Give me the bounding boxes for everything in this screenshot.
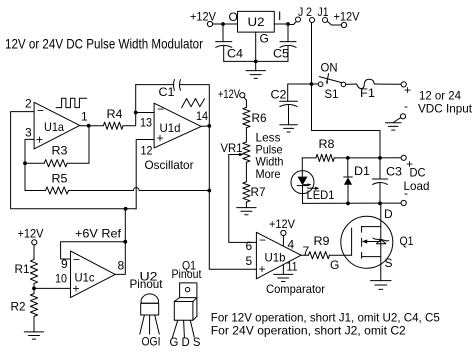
svg-text:R2: R2 <box>11 300 26 314</box>
wire node to J2 left contact <box>288 22 296 25</box>
svg-text:C2: C2 <box>271 88 287 102</box>
wire to U1c pin10 <box>34 287 71 289</box>
svg-text:12: 12 <box>141 144 153 158</box>
node R1/R2 junction <box>32 287 36 291</box>
node D1 top <box>346 156 350 160</box>
DC load + terminal <box>401 155 413 171</box>
svg-text:Q1: Q1 <box>400 234 414 248</box>
node ref rail <box>124 207 128 211</box>
svg-text:+12V: +12V <box>269 217 295 231</box>
node switch / C2 / bus <box>310 82 314 86</box>
potentiometer VR1 <box>221 141 257 242</box>
svg-text:VDC Input: VDC Input <box>418 102 473 116</box>
svg-text:+: + <box>36 133 43 147</box>
wire R5 to pin5 rail with jump over <box>68 190 133 192</box>
svg-text:More: More <box>256 167 281 181</box>
body diode <box>376 239 385 244</box>
wire U1b output <box>301 254 308 256</box>
ground (R7) <box>237 208 256 215</box>
+12V terminal (VR1 chain) <box>218 87 246 107</box>
wire pin13 <box>136 112 154 114</box>
svg-text:+: + <box>404 83 411 97</box>
svg-text:2: 2 <box>25 97 32 111</box>
svg-text:6: 6 <box>246 239 253 253</box>
drain stub <box>362 226 381 228</box>
svg-text:S: S <box>385 256 393 270</box>
node U1a output <box>87 124 91 128</box>
U2 pinout label <box>130 270 164 292</box>
svg-text:+6V Ref: +6V Ref <box>75 227 122 241</box>
svg-text:+: + <box>157 131 164 145</box>
svg-text:J 2: J 2 <box>298 5 312 19</box>
svg-text:J1: J1 <box>318 5 329 19</box>
+12V terminal (regulator output rail) <box>190 10 216 27</box>
svg-text:3: 3 <box>25 126 32 140</box>
+12V terminal (main rail source) <box>334 10 360 28</box>
svg-text:10: 10 <box>55 272 67 286</box>
svg-text:+: + <box>73 282 80 296</box>
node U1d output <box>207 124 211 128</box>
svg-text:Pinout: Pinout <box>130 277 164 291</box>
svg-text:+12V: +12V <box>190 10 216 24</box>
wire U1d pin12 down to ref rail <box>136 140 154 209</box>
wire - load rail <box>303 202 402 204</box>
Q1 pinout package (TO-220) <box>170 283 201 349</box>
svg-text:C4: C4 <box>227 47 243 61</box>
svg-text:O: O <box>229 10 238 24</box>
resistor R9 <box>309 234 352 272</box>
LED LED1 <box>291 158 335 204</box>
op-amp U1c <box>55 251 125 298</box>
svg-text:−: − <box>37 104 44 118</box>
wire node to U2 O pin <box>223 23 238 25</box>
svg-text:For 24V operation, short J2, o: For 24V operation, short J2, omit C2 <box>211 324 406 338</box>
svg-text:11: 11 <box>287 260 298 274</box>
resistor R2 <box>11 294 38 332</box>
switch S1 <box>313 61 345 102</box>
svg-text:R6: R6 <box>252 111 267 125</box>
resistor R8 <box>316 137 401 162</box>
Q1 pinout label <box>172 259 203 282</box>
wire +12V terminal to U2 output node <box>213 23 223 25</box>
ground (U2) <box>246 61 265 78</box>
ground (R2) <box>24 332 43 339</box>
triangle wave glyph <box>182 99 205 108</box>
svg-text:I: I <box>278 9 281 23</box>
svg-text:−: − <box>259 233 266 247</box>
channel bar dashed <box>361 226 363 232</box>
svg-text:4: 4 <box>288 238 295 252</box>
DC load - terminal <box>401 186 408 206</box>
svg-text:-: - <box>404 186 408 200</box>
svg-text:+: + <box>259 262 266 276</box>
resistor R6 <box>243 107 267 142</box>
svg-text:S1: S1 <box>325 87 339 101</box>
svg-text:G: G <box>260 32 269 46</box>
svg-text:1: 1 <box>81 110 88 124</box>
node ground rail <box>254 60 258 64</box>
svg-text:+12V: +12V <box>18 227 44 241</box>
drain-source lead <box>380 204 382 281</box>
ground (VDC input) <box>385 123 401 130</box>
svg-text:+12V: +12V <box>218 87 240 101</box>
op-amp U1a <box>25 97 88 149</box>
source stub <box>362 256 381 258</box>
wire U1a output <box>80 125 104 127</box>
svg-text:7: 7 <box>303 244 310 258</box>
svg-text:Comparator: Comparator <box>266 282 325 296</box>
wire U1a pin2 loop (left and down) <box>11 112 137 209</box>
+12V terminal (R1) <box>18 227 44 245</box>
wire U1a pin3 <box>25 139 34 190</box>
svg-text:R1: R1 <box>15 262 30 276</box>
VDC input + terminal <box>401 82 411 97</box>
svg-text:LED1: LED1 <box>307 188 335 202</box>
svg-text:ON: ON <box>321 61 338 75</box>
svg-text:13: 13 <box>140 116 152 130</box>
resistor R4 <box>103 85 135 130</box>
square wave glyph <box>56 98 87 107</box>
wire VR1 wiper down to U1b pin6 <box>229 155 257 243</box>
svg-text:C5: C5 <box>273 47 289 61</box>
capacitor C4 <box>216 26 244 61</box>
svg-text:F1: F1 <box>360 86 375 100</box>
LED arrows <box>304 184 309 186</box>
svg-text:Oscillator: Oscillator <box>145 158 194 172</box>
svg-text:R7: R7 <box>251 185 266 199</box>
node D1 bottom <box>346 202 350 206</box>
jumper J2 <box>296 5 315 23</box>
svg-text:12V or 24V DC Pulse Width Modu: 12V or 24V DC Pulse Width Modulator <box>5 36 203 52</box>
wire U1c feedback to pin9 <box>61 242 126 259</box>
svg-text:5: 5 <box>246 254 253 268</box>
wire node to C2 <box>288 84 312 101</box>
wire main bus from J2 down to switch node <box>311 23 313 85</box>
svg-text:R8: R8 <box>319 137 335 151</box>
capacitor C1 <box>136 80 210 126</box>
svg-text:D: D <box>384 207 393 221</box>
wire U1c output to +6V rail <box>115 209 125 275</box>
resistor R3 <box>25 126 89 167</box>
gate bar <box>351 228 353 255</box>
diode D1 <box>344 158 371 204</box>
ground (C2) <box>280 125 298 132</box>
op-amp U1d <box>140 102 208 172</box>
wire + load rail <box>302 157 316 159</box>
ground (U1b) <box>274 274 293 281</box>
jumper J1 <box>318 5 329 23</box>
U2 pinout package (TO-92) <box>140 294 161 349</box>
svg-text:12 or 24: 12 or 24 <box>419 89 461 103</box>
svg-text:R3: R3 <box>52 144 68 158</box>
svg-text:+12V: +12V <box>334 10 360 24</box>
svg-text:U2: U2 <box>248 15 265 29</box>
svg-text:R4: R4 <box>107 107 123 121</box>
svg-text:D1: D1 <box>354 164 370 178</box>
svg-text:-: - <box>404 99 408 113</box>
capacitor C3 <box>372 158 402 204</box>
voltage regulator U2 <box>229 9 282 46</box>
node feedback branch <box>123 240 127 244</box>
resistor R7 <box>243 182 266 208</box>
capacitor C2 <box>271 88 298 125</box>
node U2 output / C4 <box>221 22 225 26</box>
svg-text:−: − <box>157 102 164 116</box>
node C3 top <box>378 156 382 160</box>
op-amp U1b <box>246 232 326 296</box>
resistor R1 <box>15 245 38 294</box>
wire U2 G pin down <box>255 32 257 61</box>
svg-text:For 12V operation, short J1, o: For 12V operation, short J1, omit U2, C4… <box>211 311 440 325</box>
svg-text:14: 14 <box>196 109 208 123</box>
wire C4/G/C5 bottom rail <box>224 60 288 62</box>
node R3 left <box>23 161 27 165</box>
wire J1 to +12V source terminal <box>327 21 341 25</box>
svg-text:C3: C3 <box>386 165 402 179</box>
svg-text:G D S: G D S <box>170 335 201 349</box>
node triangle wave / pin5 <box>207 189 211 193</box>
svg-text:G: G <box>330 258 339 272</box>
wire bus down from switch node to +load rail <box>312 84 381 158</box>
svg-text:U1a: U1a <box>44 120 64 134</box>
transistor Q1 (MOSFET) <box>341 204 414 281</box>
wire U1b V- to ground <box>282 265 284 274</box>
svg-text:U1b: U1b <box>265 251 286 265</box>
svg-text:C1: C1 <box>159 85 175 99</box>
fuse F1 <box>346 79 401 100</box>
svg-text:DC: DC <box>410 166 426 180</box>
resistor R5 <box>25 172 209 195</box>
capacitor C5 <box>273 26 296 61</box>
node U1d pin13 <box>134 111 138 115</box>
wire U1d output down to U1b pin5 <box>209 126 256 269</box>
svg-text:8: 8 <box>118 259 125 273</box>
body stub with arrow <box>365 241 381 243</box>
node C3 bottom / drain <box>378 202 382 206</box>
svg-text:OGI: OGI <box>142 335 161 349</box>
svg-text:R5: R5 <box>52 172 68 186</box>
node U2 input / C5 <box>286 22 290 26</box>
wire U1d output to apex <box>201 125 209 128</box>
+12V terminal (U1b V+) <box>269 217 295 246</box>
VR1 wiper arrow <box>229 154 241 156</box>
wire U2 I pin to input node <box>274 23 288 25</box>
svg-text:Pinout: Pinout <box>172 267 203 281</box>
ground (Q1 source) <box>371 281 392 290</box>
VDC input - terminal <box>393 99 408 123</box>
svg-text:−: − <box>73 253 80 267</box>
svg-text:R9: R9 <box>314 234 330 248</box>
